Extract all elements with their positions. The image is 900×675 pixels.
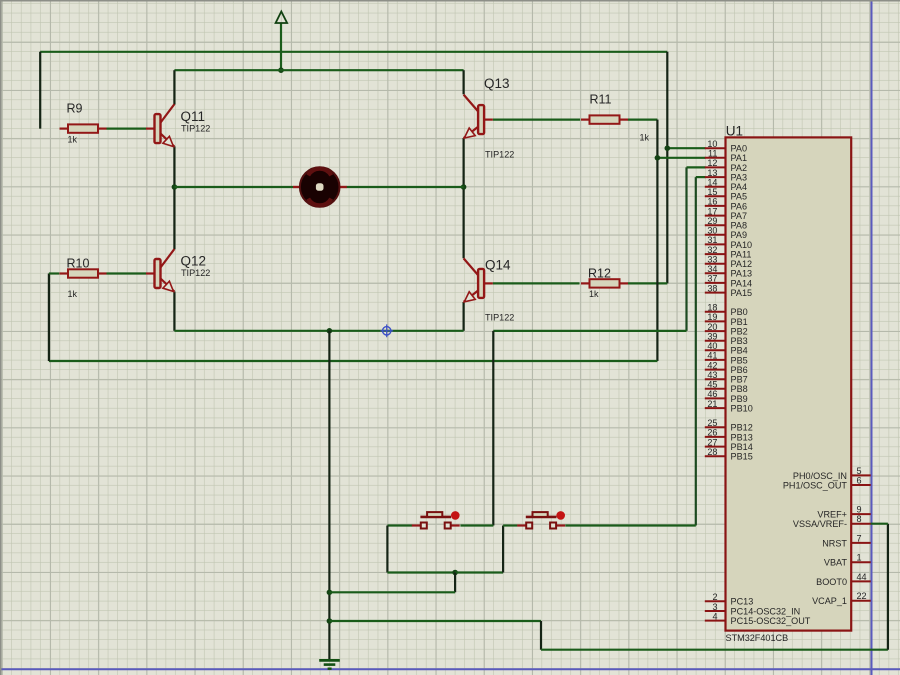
pin VREF+ (pin 9) stub [851,513,871,515]
resistor R9 [60,124,107,132]
pin PA7 (pin 17) stub [705,215,726,217]
svg-text:44: 44 [857,572,867,582]
wire net GND: vertical x=503.1 up to button2 [502,526,504,573]
pin PB9 (pin 46) stub [705,397,726,399]
svg-text:PB4: PB4 [731,346,748,356]
svg-text:45: 45 [707,380,717,390]
wire net PA3: from pin PA3 [696,176,706,178]
wire net PA2: vertical x=686.5 [685,167,687,331]
resistor R11 [581,115,628,123]
wire net PA0: horizontal into pin PA0 [667,147,705,149]
svg-text:7: 7 [857,533,862,543]
pin VSSA/VREF- (pin 8) stub [851,523,871,525]
svg-text:29: 29 [707,216,717,226]
pin PA15 (pin 38) stub [705,292,726,294]
junction PA1 node [655,155,661,161]
svg-text:33: 33 [707,255,717,265]
pin PB3 (pin 39) stub [705,340,726,342]
pin PA6 (pin 16) stub [705,205,726,207]
wire net PA0: R12 output horizontal [628,282,668,284]
svg-text:43: 43 [707,370,717,380]
window edge top [0,0,900,2]
svg-text:VSSA/VREF-: VSSA/VREF- [793,519,847,529]
microcontroller U1 STM32F401CB body [726,137,852,630]
svg-text:PC13: PC13 [731,597,754,607]
svg-text:PA9: PA9 [731,230,748,240]
junction PA0 node [665,145,671,151]
svg-text:PB13: PB13 [731,432,753,442]
junction motor right node [461,184,467,190]
svg-text:PH1/OSC_OUT: PH1/OSC_OUT [783,480,848,490]
svg-text:3: 3 [712,602,717,612]
pin PB15 (pin 28) stub [705,455,726,457]
svg-text:PA6: PA6 [731,201,748,211]
svg-text:4: 4 [712,611,717,621]
pin PH0/OSC_IN (pin 5) stub [851,474,871,476]
svg-text:PB0: PB0 [731,307,748,317]
svg-text:STM32F401CB: STM32F401CB [726,633,789,643]
svg-text:R9: R9 [67,102,83,116]
wire net PA0: top rail y=51.8 from R9 corner to right corner [40,51,667,53]
svg-text:1: 1 [857,553,862,563]
svg-text:PB12: PB12 [731,423,753,433]
svg-text:PB9: PB9 [731,394,748,404]
svg-text:34: 34 [707,264,717,274]
svg-text:22: 22 [857,591,867,601]
power symbol (VCC arrow) [276,12,288,24]
pin VBAT (pin 1) stub [851,561,871,563]
pin PA3 (pin 13) stub [705,176,726,178]
svg-text:12: 12 [707,158,717,168]
svg-text:1k: 1k [640,133,650,143]
svg-text:PC14-OSC32_IN: PC14-OSC32_IN [731,606,801,616]
transistor Q11 [146,104,174,147]
wire right branch vertical upper (Q13 collector) [463,70,465,94]
wire left branch vertical upper (Q11 collector) [173,70,175,104]
svg-text:25: 25 [707,418,717,428]
wire left branch vertical middle (Q11 emitter to Q12 collector) [173,146,175,249]
wire left branch vertical lower (Q12 emitter) [173,292,175,331]
ground symbol [319,660,340,668]
junction ground tap on bottom rail [327,328,333,334]
push button BUTTON1 [412,512,460,528]
transistor Q12 [146,249,174,292]
wire R9 to Q11 base [107,128,147,130]
svg-text:PA3: PA3 [731,173,748,183]
wire net PA2: vertical x=493.3 down to button1 [492,331,494,526]
svg-text:VBAT: VBAT [824,558,848,568]
svg-text:42: 42 [707,360,717,370]
svg-text:26: 26 [707,428,717,438]
pin PA12 (pin 33) stub [705,263,726,265]
svg-text:PA1: PA1 [731,153,748,163]
svg-text:19: 19 [707,312,717,322]
wire net VCC: power symbol stem [280,23,282,70]
wire net GND: horizontal y=572.5 right of node [455,571,503,573]
svg-text:37: 37 [707,274,717,284]
svg-text:27: 27 [707,437,717,447]
svg-text:46: 46 [707,389,717,399]
wire net PA3: vertical x=695.8 [695,177,697,525]
svg-text:PA7: PA7 [731,211,748,221]
svg-text:PB6: PB6 [731,365,748,375]
wire net GND: button2 left wire [503,524,517,526]
wire net PA3: button2 right pin wire [565,524,696,526]
svg-text:11: 11 [708,149,717,159]
window edge left [0,0,2,675]
origin marker (blue crosshair) on bottom rail [380,324,393,337]
svg-text:TIP122: TIP122 [485,313,514,323]
svg-text:R10: R10 [67,257,90,271]
svg-text:TIP122: TIP122 [181,268,210,278]
wire net PA1: R11 output corner horizontal [628,118,658,120]
pin PB7 (pin 43) stub [705,378,726,380]
wire Q13 base to R11 [493,118,580,120]
pin PB5 (pin 41) stub [705,359,726,361]
pin PA2 (pin 12) stub [705,166,726,168]
pin PB14 (pin 27) stub [705,446,726,448]
wire net GND: vertical x=541 [540,621,542,650]
wire net PA2: from pin PA2 [687,166,706,168]
svg-text:PB2: PB2 [731,327,748,337]
svg-text:1k: 1k [68,289,78,299]
wire net PA2: button1 right pin wire [460,524,493,526]
pin PB8 (pin 45) stub [705,388,726,390]
svg-text:39: 39 [707,332,717,342]
svg-text:21: 21 [707,399,717,409]
wire net PA1: vertical x=657.4 [656,120,658,361]
wire net GND: vertical x=387.4 [386,526,388,573]
pin PB2 (pin 20) stub [705,330,726,332]
svg-text:8: 8 [857,514,862,524]
wire net PA2: horizontal y=330.9 [493,330,686,332]
svg-text:30: 30 [707,226,717,236]
svg-text:2: 2 [712,592,717,602]
wire net GND: vertical x=887.9 up to VSSA [887,524,889,650]
wire net PA0: left vertical down to R9 [39,52,41,129]
svg-text:PA8: PA8 [731,221,748,231]
resistor R10 [60,269,107,277]
svg-text:TIP122: TIP122 [181,123,210,133]
svg-text:9: 9 [857,505,862,515]
pin BOOT0 (pin 44) stub [851,580,871,582]
pin VCAP_1 (pin 22) stub [851,600,871,602]
svg-text:PB3: PB3 [731,336,748,346]
sheet border bottom (blue) [0,668,900,670]
svg-text:PB5: PB5 [731,355,748,365]
wire Q14 base to R12 [493,282,580,284]
wire net PA0: right vertical x=667.3 down to R12 [666,52,668,284]
pin PA11 (pin 32) stub [705,253,726,255]
wire net GND: horizontal y=592.3 [329,591,455,593]
svg-text:5: 5 [857,466,862,476]
wire motor line left [174,186,293,188]
pin PA14 (pin 37) stub [705,282,726,284]
wire right branch vertical middle (Q13 emitter to Q14 collector) [463,138,465,258]
wire net GND: horizontal y=649.7 under chip [541,649,888,651]
pin PB13 (pin 26) stub [705,436,726,438]
svg-text:31: 31 [707,235,717,245]
pin PC13 (pin 2) stub [705,600,726,602]
pin PA10 (pin 31) stub [705,243,726,245]
svg-text:PB15: PB15 [731,452,753,462]
pin PB4 (pin 40) stub [705,349,726,351]
junction power rail [278,67,284,73]
resistor R12 [581,279,628,287]
svg-text:28: 28 [707,447,717,457]
svg-text:40: 40 [707,341,717,351]
svg-text:PA5: PA5 [731,192,748,202]
svg-text:NRST: NRST [822,538,847,548]
svg-text:PC15-OSC32_OUT: PC15-OSC32_OUT [731,616,811,626]
svg-text:15: 15 [707,187,717,197]
svg-text:BOOT0: BOOT0 [816,577,847,587]
wire motor line right [347,186,464,188]
wire net GND: into pin VSSA/VREF- [871,523,888,525]
pin PB1 (pin 19) stub [705,320,726,322]
pin PA0 (pin 10) stub [705,147,726,149]
wire emitter bottom rail y=330.8 [174,330,463,332]
svg-text:TIP122: TIP122 [485,150,514,160]
svg-text:Q11: Q11 [181,109,206,124]
pin PA4 (pin 14) stub [705,186,726,188]
push button BUTTON2 [517,512,565,528]
transistor Q14 [464,258,493,302]
pin NRST (pin 7) stub [851,542,871,544]
svg-text:PB1: PB1 [731,317,748,327]
svg-text:38: 38 [707,283,717,293]
svg-text:13: 13 [707,168,717,178]
svg-text:PA12: PA12 [731,259,753,269]
wire net GND: button1 left wire [387,524,412,526]
svg-text:PA14: PA14 [731,278,753,288]
svg-text:PA10: PA10 [731,240,753,250]
svg-text:PB10: PB10 [731,404,753,414]
interactive red dot of BUTTON1 [451,511,460,520]
wire right branch vertical lower (Q14 emitter) [463,302,465,331]
svg-text:VREF+: VREF+ [817,510,847,520]
svg-text:U1: U1 [726,124,743,139]
pin PC15-OSC32_OUT (pin 4) stub [705,620,726,622]
wire net PA1: short into R10 [49,272,59,274]
svg-text:1k: 1k [68,135,78,145]
svg-text:Q12: Q12 [181,254,207,269]
svg-text:PA2: PA2 [731,163,748,173]
svg-text:PB14: PB14 [731,442,753,452]
svg-text:PB8: PB8 [731,384,748,394]
svg-text:1k: 1k [589,289,599,299]
interactive red dot of BUTTON2 [556,511,565,520]
pin PB0 (pin 18) stub [705,311,726,313]
svg-text:Q14: Q14 [485,258,511,273]
junction motor left node [172,184,178,190]
pin PA13 (pin 34) stub [705,272,726,274]
svg-text:R11: R11 [590,93,612,107]
wire net GND: horizontal y=621 [329,620,541,622]
svg-text:PA4: PA4 [731,182,748,192]
svg-text:PA13: PA13 [731,269,753,279]
pin PA9 (pin 30) stub [705,234,726,236]
svg-text:14: 14 [707,178,717,188]
wire collector top rail y=70.2 [174,69,463,71]
pin PH1/OSC_OUT (pin 6) stub [851,484,871,486]
wire net GND: main vertical x=329.4 [328,331,330,660]
svg-text:R12: R12 [588,267,611,281]
wire net PA1: horizontal into pin PA1 [657,157,705,159]
sheet border right (blue) [871,0,873,675]
wire net PA1: long bottom horizontal y=361 to R10 [49,360,658,362]
pin PA8 (pin 29) stub [705,224,726,226]
pin PA5 (pin 15) stub [705,195,726,197]
pin PB6 (pin 42) stub [705,369,726,371]
junction button ground node [452,570,458,576]
svg-text:41: 41 [707,351,717,361]
svg-text:PA0: PA0 [731,144,748,154]
motor (DC motor symbol) [293,167,347,207]
svg-text:20: 20 [707,322,717,332]
svg-text:PA11: PA11 [731,250,752,260]
wire net PA1: left vertical up to R10 [48,274,50,362]
svg-text:10: 10 [707,139,717,149]
pin PA1 (pin 11) stub [705,157,726,159]
wire net GND: vertical node to y=592.3 [454,573,456,593]
svg-text:32: 32 [707,245,717,255]
junction GND to button row [327,590,333,596]
svg-text:PH0/OSC_IN: PH0/OSC_IN [793,471,847,481]
pin PB10 (pin 21) stub [705,407,726,409]
svg-text:17: 17 [707,206,717,216]
wire net GND: horizontal y=572.5 left of node [387,571,455,573]
transistor Q13 [464,95,493,139]
pin PC14-OSC32_IN (pin 3) stub [705,610,726,612]
svg-text:PB7: PB7 [731,375,748,385]
pin PB12 (pin 25) stub [705,426,726,428]
svg-text:Q13: Q13 [484,76,510,91]
svg-text:18: 18 [707,303,717,313]
svg-text:6: 6 [857,476,862,486]
svg-text:16: 16 [707,197,717,207]
junction GND to VSSA run [327,618,333,624]
svg-text:VCAP_1: VCAP_1 [812,596,847,606]
svg-text:PA15: PA15 [731,288,753,298]
wire R10 to Q12 base [107,272,147,274]
